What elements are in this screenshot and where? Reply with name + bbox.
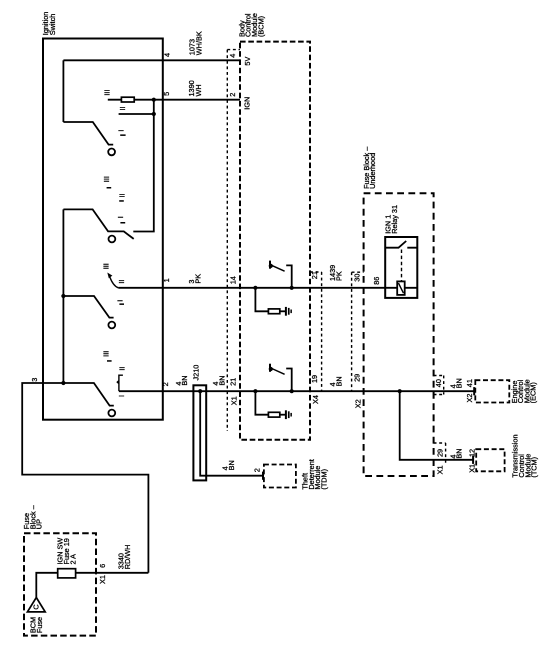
ground (BCM wire 2) [285,410,292,419]
theft deterrent module box [264,465,296,488]
svg-text:(TCM): (TCM) [530,457,539,478]
wafer3 position I label [116,300,125,305]
pin 41 (ECM) [465,379,474,387]
wafer2 position III label [102,176,111,188]
label 4 BN [174,375,189,385]
pin 19 (BCM X4) [310,375,319,383]
svg-text:4: 4 [228,54,237,58]
svg-text:UP: UP [35,519,44,529]
svg-text:IGN: IGN [242,97,251,110]
pin 2 (TDM) [252,468,261,472]
switch wafer 1 wiper [63,122,115,155]
label 4 BN (after J210) [211,375,226,385]
wire pin 3 run (3340 RD/WH) [22,383,148,573]
junction dot wafer4 feed [61,381,65,385]
wire fuse row [36,573,148,598]
svg-text:II: II [117,367,126,371]
wire feed vertical A [62,60,64,122]
label 1439 PK [328,265,344,281]
svg-text:2: 2 [228,93,237,97]
svg-text:II: II [118,193,127,197]
svg-text:J210: J210 [192,365,201,381]
fuse block UP box [24,533,96,635]
junction dot J210 [198,389,202,393]
BCM pull-up resistor + ground on wire 2 [253,389,285,417]
svg-text:5V: 5V [243,57,252,66]
label Ignition Switch [41,12,57,36]
svg-text:Fuse: Fuse [35,617,44,633]
pin 6 (fuse block X1) [98,564,107,568]
wafer1 position II label [118,106,127,110]
ground (BCM wire 1) [285,307,292,316]
pin 4 (BCM X1) [228,54,237,58]
connector X1 label (fuse block) [98,575,107,584]
svg-text:X1: X1 [435,465,444,474]
svg-text:BN: BN [455,378,464,388]
connector X2 label (ECM) [465,394,474,403]
ignition switch box [43,39,163,420]
wire bus x=153.8 [133,100,154,232]
svg-text:(ECM): (ECM) [529,382,538,403]
label 4 BN (ECM branch) [448,378,463,388]
svg-text:I: I [116,300,125,302]
svg-text:3: 3 [30,378,39,382]
relay contact [385,241,417,248]
label 4 BN (wire 2 to underhood) [328,376,343,386]
pin 1 (ignition switch) [162,278,171,282]
wire feed vertical B (from pin 3) [62,209,64,383]
switch wafer 3 wiper [63,296,115,328]
svg-text:PK: PK [335,271,344,281]
svg-text:BN: BN [227,460,236,470]
svg-text:2: 2 [161,382,170,386]
svg-text:X4: X4 [311,395,320,404]
pin 40 label [434,379,443,387]
label 4 BN (TCM branch) [448,448,463,458]
transmission control module box [476,449,504,471]
relay coil [397,281,405,295]
label Body Control Module (BCM) [237,13,265,37]
connector X1 label (BCM) [230,396,239,405]
svg-text:X2: X2 [354,399,363,408]
svg-text:21: 21 [310,271,319,279]
wafer3 position II label [117,280,126,284]
label IGN 1 Relay 31 [383,205,399,234]
pin 12 (TCM) [468,449,477,457]
label 3 PK [187,274,203,284]
power triangle BCM Fuse [27,598,45,612]
label IGN [242,97,251,110]
wafer4 position III label [102,351,112,362]
svg-text:86: 86 [372,277,381,285]
pin 2 (ignition switch) [161,382,170,386]
BCM switch on wire 1 [269,261,294,290]
svg-text:Relay 31: Relay 31 [390,205,399,234]
wire 2 (4 BN) [119,390,474,392]
BCM switch on wire 2 [269,364,294,394]
svg-text:(TDM): (TDM) [319,469,328,490]
svg-text:PK: PK [194,274,203,284]
engine control module box [475,380,509,402]
terminal (TCM) [472,456,474,464]
wafer1 position III label [103,90,112,96]
label Engine Control Module (ECM) [510,379,538,403]
svg-text:40: 40 [434,379,443,387]
svg-text:6: 6 [98,564,107,568]
connector X2 label (underhood) [354,399,363,408]
fuse IGN SW Fuse 19 2A [58,569,76,578]
label 4 BN (TDM branch) [221,460,236,470]
svg-text:III: III [102,351,111,357]
relay actuator dashed line [401,250,403,282]
terminal (TDM) [262,472,264,480]
switch wafer 4 wiper [63,383,115,416]
svg-text:X2: X2 [465,394,474,403]
svg-text:21: 21 [228,378,237,386]
connector X1 label (TCM) [468,464,477,473]
svg-text:III: III [102,176,111,182]
pin 5 (ignition switch) [162,92,171,96]
connector X1 label (underhood) [435,465,444,474]
svg-text:30: 30 [352,274,361,282]
junction dot [61,294,65,298]
svg-text:WH: WH [194,84,203,96]
label 3340 RD/WH [116,545,132,570]
switch wafer 2 wiper [63,209,133,242]
pin 3 (ignition switch) [30,378,39,382]
body control module box [240,42,310,440]
svg-text:I: I [116,216,125,218]
resistor (ignition switch bypass) [121,97,134,102]
label J210 [192,365,201,381]
svg-text:BN: BN [455,448,464,458]
wire TCM branch [400,391,473,460]
pin 29 (underhood X2) [352,374,361,382]
relay IGN 1 box [385,237,417,298]
svg-text:C: C [32,604,41,609]
svg-text:X1: X1 [98,575,107,584]
svg-text:2: 2 [252,468,261,472]
pin 4 (ignition switch) [163,53,172,57]
wafer1 contact II wire [119,113,154,115]
wafer2 position I label [116,216,125,223]
label Fuse Block - UP [22,504,43,529]
connector X4 (BCM right) [310,272,322,391]
svg-text:X1: X1 [468,464,477,473]
wafer4 bracket contact [117,375,123,391]
wafer3 position III label [102,263,111,269]
wafer4 position II label [117,367,126,371]
connector X1 (BCM left) [227,50,240,431]
pin 30 (underhood X2) [352,274,361,282]
pin 29 label [435,449,444,457]
svg-text:BN: BN [217,375,226,385]
svg-text:III: III [102,263,111,269]
junction dot [152,98,156,102]
label 1073 WH/BK [188,31,204,55]
wafer2 position II label [118,193,127,201]
label 1390 WH [187,80,203,96]
svg-text:RD/WH: RD/WH [123,545,132,570]
svg-text:2 A: 2 A [68,554,77,565]
pin 86 (relay) [372,277,381,285]
junction dot wire 2 in underhood [398,389,402,393]
wafer1 position I label [117,130,126,136]
label Transmission Control Module (TCM) [511,434,539,477]
label Theft Deterrent Module (TDM) [301,459,329,489]
terminal (ECM) [473,387,475,395]
label Fuse Block - Underhood [362,146,377,189]
BCM pull-up resistor + ground on wire 1 [253,286,285,314]
svg-text:4: 4 [163,53,172,57]
svg-text:Underhood: Underhood [368,153,377,189]
label BCM Fuse [28,617,44,633]
svg-text:(BCM): (BCM) [256,16,265,37]
svg-text:1: 1 [162,278,171,282]
pin 21 (BCM X4) [310,271,319,279]
svg-text:29: 29 [352,374,361,382]
junction dot [152,112,156,116]
connector X2 (underhood left) [352,272,364,391]
wire 1 (3 PK / 1439 PK) [118,287,417,289]
svg-text:Switch: Switch [48,14,57,36]
svg-text:II: II [117,280,126,284]
svg-text:BN: BN [180,375,189,385]
svg-text:WH/BK: WH/BK [195,31,204,55]
connector pin 29 (underhood right) [434,443,446,465]
svg-text:III: III [103,90,112,96]
svg-text:X1: X1 [230,396,239,405]
svg-text:29: 29 [435,449,444,457]
fuse block underhood box [364,193,434,476]
svg-text:14: 14 [229,276,238,284]
svg-text:I: I [117,395,126,397]
wafer1 contact III wire [108,99,240,101]
pin 21 (BCM X1) [228,378,237,386]
svg-text:BN: BN [335,376,344,386]
svg-text:5: 5 [162,92,171,96]
splice pack J210 [193,385,263,480]
svg-text:19: 19 [310,375,319,383]
wafer4 position I label [117,395,126,397]
label 5V [243,57,252,66]
connector X4 label [311,395,320,404]
label IGN SW Fuse 19 2A [55,538,77,565]
svg-text:41: 41 [465,379,474,387]
pin 2 (BCM X1) [228,93,237,97]
connector pin 40 (underhood right) [434,376,444,395]
wire pin4 feed (1073 WH/BK) [63,59,240,61]
pin 14 (BCM X1) [229,276,238,284]
svg-text:II: II [118,106,127,110]
svg-text:I: I [117,130,126,132]
wafer3 momentary contact arrow [107,273,118,288]
